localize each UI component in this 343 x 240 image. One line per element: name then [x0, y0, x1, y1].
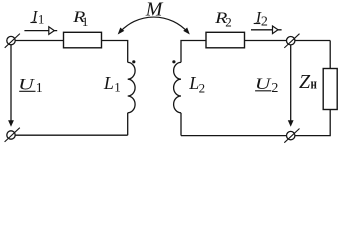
svg-text:2: 2 [225, 15, 232, 30]
svg-text:1: 1 [36, 81, 43, 96]
svg-text:2: 2 [271, 81, 278, 96]
svg-text:н: н [311, 77, 318, 93]
svg-text:1: 1 [114, 80, 121, 95]
svg-text:U: U [255, 76, 272, 93]
svg-text:1: 1 [82, 14, 89, 29]
svg-text:2: 2 [261, 14, 268, 29]
svg-text:L: L [188, 73, 199, 93]
svg-text:L: L [103, 73, 114, 93]
svg-text:Z: Z [299, 71, 311, 93]
svg-text:M: M [145, 0, 164, 21]
svg-text:U: U [18, 76, 35, 93]
svg-text:2: 2 [199, 81, 206, 96]
svg-text:1: 1 [38, 11, 45, 26]
